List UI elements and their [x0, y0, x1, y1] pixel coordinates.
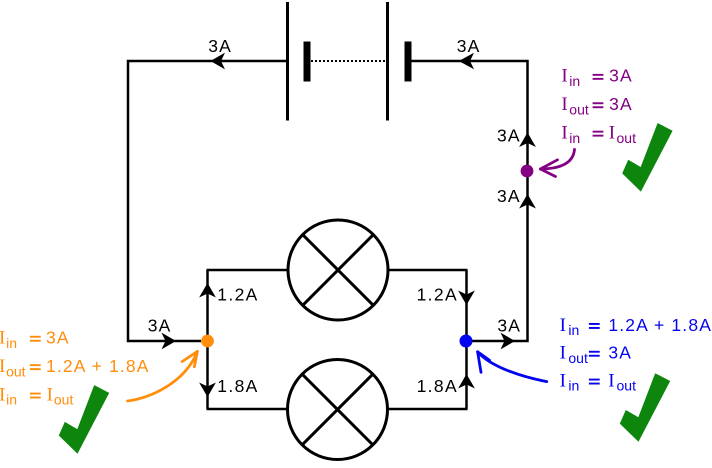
svg-text:3A: 3A: [148, 316, 172, 336]
svg-text:3A: 3A: [497, 315, 521, 335]
svg-text:I: I: [561, 94, 567, 115]
green checkmark bottom-right: [620, 373, 670, 442]
svg-text:out: out: [6, 363, 26, 379]
lamp L1 circle: [288, 220, 388, 320]
current arrow top-left (left): [211, 53, 226, 70]
wire left inner vertical branch: [206, 270, 209, 409]
svg-text:1.2A: 1.2A: [217, 284, 258, 304]
svg-text:I: I: [608, 370, 614, 391]
svg-text:out: out: [569, 101, 589, 117]
svg-text:3A: 3A: [497, 125, 521, 145]
current arrow right outer lower (up): [519, 194, 536, 209]
svg-text:in: in: [569, 130, 580, 146]
lamp L2 cross: [302, 374, 373, 445]
svg-text:I: I: [561, 66, 567, 87]
orange curved pointer arrow to node A: [128, 351, 198, 401]
wire top-left from battery to left corner and down left side to node A feed: [128, 61, 287, 341]
svg-text:1.8A: 1.8A: [217, 376, 258, 396]
svg-text:1.2A + 1.8A: 1.2A + 1.8A: [608, 315, 712, 335]
current arrow out of node B (right): [501, 333, 516, 350]
node A orange junction dot: [201, 335, 214, 348]
current arrow right branch down (1.2A): [458, 291, 475, 306]
current arrow into node A (right): [162, 333, 177, 350]
blue annotation line 1: Iin = 1.2A + 1.8A: [560, 315, 712, 338]
blue annotation line 2: Iout = 3A: [560, 343, 633, 366]
svg-text:out: out: [54, 392, 74, 408]
wire lamp L1 to right branch: [388, 269, 468, 272]
svg-text:in: in: [6, 392, 17, 408]
battery B1 long plate left: [286, 2, 289, 121]
node C purple junction dot: [521, 165, 534, 178]
wire right inner vertical branch: [465, 270, 468, 409]
wire lamp L2 to right branch: [388, 408, 468, 411]
svg-text:out: out: [617, 130, 637, 146]
purple annotation line 3: Iin = Iout: [561, 123, 636, 146]
svg-text:out: out: [568, 350, 588, 366]
current arrow left branch down (1.8A): [199, 383, 216, 398]
current arrow left branch up (1.2A): [199, 283, 216, 298]
svg-text:I: I: [47, 384, 53, 405]
lamp L1 cross: [303, 235, 374, 306]
svg-text:3A: 3A: [208, 36, 232, 56]
svg-text:I: I: [561, 123, 567, 144]
svg-text:in: in: [6, 335, 17, 351]
svg-text:1.2A: 1.2A: [417, 284, 458, 304]
svg-text:I: I: [560, 370, 566, 391]
svg-text:I: I: [560, 315, 566, 336]
purple annotation line 1: Iin = 3A: [561, 66, 632, 89]
green checkmark bottom-left: [59, 385, 109, 454]
svg-text:3A: 3A: [609, 94, 633, 114]
lamp L2 circle: [288, 360, 388, 460]
svg-text:3A: 3A: [608, 343, 632, 363]
blue curved pointer arrow to node B: [478, 352, 547, 382]
svg-text:I: I: [0, 328, 5, 349]
svg-text:in: in: [568, 378, 579, 394]
svg-text:in: in: [568, 322, 579, 338]
battery dotted cells line: [311, 60, 385, 62]
blue annotation line 3: Iin = Iout: [560, 370, 636, 393]
current arrow top-right (left): [459, 53, 474, 69]
purple annotation line 2: Iout = 3A: [561, 94, 632, 117]
wire bottom branch to lamp L2: [207, 408, 289, 411]
svg-text:3A: 3A: [46, 328, 70, 348]
orange annotation line 1: Iin = 3A: [0, 328, 70, 351]
svg-text:I: I: [609, 123, 615, 144]
purple curved pointer arrow to node C: [540, 149, 574, 176]
svg-text:in: in: [569, 73, 580, 89]
svg-text:1.8A: 1.8A: [417, 376, 458, 396]
svg-text:I: I: [560, 343, 566, 364]
orange annotation line 3: Iin = Iout: [0, 384, 73, 407]
current arrow right branch up (1.8A): [458, 374, 475, 389]
node B blue junction dot: [460, 335, 473, 348]
svg-text:1.2A + 1.8A: 1.2A + 1.8A: [46, 356, 150, 376]
svg-text:3A: 3A: [457, 36, 481, 56]
green checkmark top-right: [622, 123, 672, 192]
svg-text:3A: 3A: [497, 186, 521, 206]
svg-text:I: I: [0, 384, 5, 405]
wire top branch to lamp L1: [207, 269, 289, 272]
current arrow right outer upper (up): [519, 133, 536, 148]
orange annotation line 2: Iout = 1.2A + 1.8A: [0, 356, 150, 379]
battery B1 long plate right: [386, 2, 389, 121]
svg-text:out: out: [617, 378, 637, 394]
battery B1 short thick plate left: [304, 42, 311, 82]
svg-text:I: I: [0, 356, 5, 377]
battery B1 short thick plate right: [405, 42, 412, 82]
svg-text:3A: 3A: [609, 66, 633, 86]
wire top-right from battery to right corner and down to node B feed: [410, 61, 528, 341]
